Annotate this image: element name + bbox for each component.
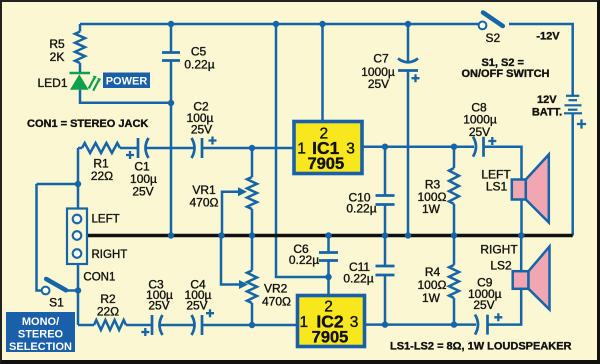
capacitor C3: [152, 315, 163, 335]
wire IC2 output to C9: [365, 323, 477, 326]
wire input to R1: [78, 147, 82, 150]
svg-text:STEREO: STEREO: [18, 329, 64, 341]
C7 plus: [412, 74, 420, 82]
node ground / C6: [325, 232, 331, 238]
node IC1 out / R3: [451, 144, 457, 150]
wire R3 top: [453, 147, 456, 168]
C8 plus: [488, 137, 496, 145]
wire LS1 to ground: [520, 200, 523, 236]
VR1 wiper: [222, 187, 247, 235]
svg-text:7905: 7905: [307, 155, 344, 173]
connector CON1 (stereo jack): [67, 209, 87, 265]
svg-text:BATT.: BATT.: [532, 106, 562, 118]
wire C9 to LS2: [488, 289, 522, 325]
svg-text:25V: 25V: [148, 299, 169, 313]
wire -12V feed to IC1 pin2: [321, 24, 324, 122]
wire C11 bottom: [384, 275, 387, 325]
svg-text:22Ω: 22Ω: [97, 305, 119, 319]
wire S1 left drop: [37, 184, 42, 291]
svg-text:0.22µ: 0.22µ: [184, 58, 214, 72]
svg-text:1: 1: [299, 314, 308, 331]
C9 plus: [494, 313, 502, 321]
svg-text:1: 1: [297, 141, 306, 158]
node IC2 out / R4: [451, 321, 457, 327]
node C6 / IC2 pin2: [325, 274, 331, 280]
battery B1 12V: [564, 96, 582, 114]
battery plus: [577, 119, 586, 128]
svg-text:25V: 25V: [132, 185, 153, 199]
loudspeaker LS1: [512, 155, 549, 223]
wire top -12V rail left: [80, 23, 478, 26]
potentiometer VR2: [247, 271, 257, 304]
svg-text:1W: 1W: [422, 291, 441, 305]
svg-text:MONO/: MONO/: [22, 316, 59, 328]
svg-text:ON/OFF SWITCH: ON/OFF SWITCH: [462, 68, 550, 80]
node input / VR1 top: [249, 145, 255, 151]
wire VR1 bottom to VR2 top: [251, 209, 254, 271]
switch S1: [42, 279, 66, 294]
capacitor C11: [376, 266, 395, 275]
MONO/STEREO SELECTION label box: [6, 312, 75, 353]
C3 plus: [141, 328, 149, 336]
svg-text:POWER: POWER: [106, 75, 148, 87]
svg-text:RIGHT: RIGHT: [480, 243, 518, 257]
node top rail / IC2 feed: [273, 21, 279, 27]
capacitor C1: [138, 138, 149, 158]
svg-text:S2: S2: [485, 31, 500, 45]
LED1: [70, 73, 102, 91]
svg-text:25V: 25V: [368, 77, 389, 91]
wire R3 bottom: [453, 204, 456, 236]
wire C6 bottom to IC2 pin2: [327, 261, 330, 296]
wire S1 link to left channel: [37, 183, 79, 186]
C4 plus: [206, 309, 214, 317]
wire S1 to node: [66, 289, 78, 292]
svg-text:RIGHT: RIGHT: [92, 249, 128, 261]
svg-text:470Ω: 470Ω: [262, 295, 291, 309]
svg-text:C5: C5: [191, 45, 207, 59]
wire to R2: [78, 324, 94, 327]
wire battery to ground-rail end: [571, 113, 574, 236]
wire C1 to C2: [146, 147, 194, 150]
C2 plus: [209, 137, 217, 145]
wire C3 to C4: [160, 324, 194, 327]
svg-text:S1: S1: [49, 296, 64, 310]
POWER label box: [103, 73, 150, 89]
node LED1-C5: [168, 100, 174, 106]
node bottom input / VR2: [249, 322, 255, 328]
node S1-CON1-R2: [75, 287, 81, 293]
svg-text:25V: 25V: [191, 123, 212, 137]
wire top -12V rail right to battery: [509, 24, 573, 96]
wire VR1 top: [251, 148, 254, 177]
loudspeaker LS2: [513, 247, 550, 310]
wire CON1 bottom to R2 line: [77, 264, 80, 325]
wire C5 top: [170, 24, 173, 53]
svg-text:22Ω: 22Ω: [91, 169, 113, 183]
svg-text:25V: 25V: [469, 125, 490, 139]
node ground / wipers: [218, 232, 224, 238]
wire C10 bottom to C11 top: [384, 205, 387, 267]
node ground / C5: [168, 232, 174, 238]
wire -12V feed to IC2 pin2: [276, 24, 329, 277]
node IC2 out / C11: [382, 321, 388, 327]
wire VR2 bottom: [251, 303, 254, 325]
node top rail / C5: [168, 21, 174, 27]
node ground / C7: [405, 232, 411, 238]
svg-text:C7: C7: [373, 52, 389, 66]
svg-text:0.22µ: 0.22µ: [346, 202, 376, 216]
capacitor C9: [475, 315, 488, 335]
svg-text:25V: 25V: [473, 298, 494, 312]
svg-text:3: 3: [350, 314, 359, 331]
svg-text:R4: R4: [425, 265, 441, 279]
capacitor C2: [192, 138, 203, 158]
wire C10 top: [384, 147, 387, 196]
node ground / VR1-VR2: [249, 232, 255, 238]
wire R2 to C3: [126, 324, 152, 327]
wire C8 to LS1: [484, 147, 522, 180]
svg-text:SELECTION: SELECTION: [9, 341, 72, 353]
wire C7 top: [407, 24, 410, 62]
wire C4 to IC2 pin1: [202, 324, 298, 327]
capacitor C4: [192, 315, 203, 335]
svg-text:1W: 1W: [422, 202, 441, 216]
resistor R4: [449, 265, 459, 298]
node ground / LS1-LS2: [518, 232, 524, 238]
svg-text:0.22µ: 0.22µ: [343, 272, 373, 286]
resistor R2: [94, 320, 126, 330]
svg-text:3: 3: [346, 141, 355, 158]
wire IC1 output to C8: [362, 145, 474, 148]
resistor R1: [82, 143, 120, 153]
resistor R5: [75, 32, 85, 64]
wire C2 to IC1 pin1: [202, 147, 294, 150]
node IC1 out / C10: [382, 144, 388, 150]
svg-text:LS2: LS2: [490, 259, 512, 273]
resistor R3: [449, 168, 459, 204]
svg-text:R5: R5: [49, 37, 65, 51]
wire C7 bottom to ground: [407, 71, 410, 236]
node ground / C10-C11: [382, 232, 388, 238]
potentiometer VR1: [247, 177, 257, 209]
svg-text:CON1: CON1: [83, 272, 115, 284]
svg-text:25V: 25V: [186, 299, 207, 313]
node top rail / IC1 feed: [319, 21, 325, 27]
wire C6 top: [327, 236, 330, 253]
svg-text:470Ω: 470Ω: [190, 196, 219, 210]
capacitor C8: [473, 137, 484, 157]
wire R4 bottom: [453, 298, 456, 325]
capacitor C10: [376, 196, 395, 205]
wire LS2 to ground: [520, 236, 523, 272]
wire R1 to C1: [120, 147, 138, 150]
capacitor C5: [162, 53, 180, 61]
VR2 wiper: [221, 236, 248, 290]
wire left input corner to CON1: [77, 148, 80, 209]
op-amp U1 regulator IC1 7905: [294, 122, 362, 174]
ground rail (0V line): [87, 234, 573, 238]
wire R5 top stub: [79, 24, 82, 32]
op-amp U2 regulator IC2 7905: [298, 296, 365, 347]
svg-text:LS1-LS2 = 8Ω, 1W LOUDSPEAKER: LS1-LS2 = 8Ω, 1W LOUDSPEAKER: [390, 341, 572, 353]
wire R5 to LED1: [79, 63, 82, 72]
svg-text:-12V: -12V: [536, 31, 560, 43]
svg-text:0.22µ: 0.22µ: [289, 253, 319, 267]
node top rail / C7: [405, 21, 411, 27]
wire LED1 to node: [80, 90, 171, 103]
wire C5 bottom to ground: [170, 61, 173, 236]
capacitor C6: [319, 253, 338, 261]
svg-text:VR2: VR2: [264, 282, 288, 296]
node ground / R3-R4: [451, 232, 457, 238]
svg-text:7905: 7905: [312, 329, 349, 347]
svg-text:2K: 2K: [50, 50, 65, 64]
svg-text:LED1: LED1: [37, 76, 67, 90]
svg-text:LS1: LS1: [486, 180, 508, 194]
capacitor C7: [398, 59, 418, 71]
svg-text:LEFT: LEFT: [92, 214, 120, 226]
svg-text:12V: 12V: [537, 94, 557, 106]
wire R4 top: [453, 236, 456, 265]
svg-text:100Ω: 100Ω: [418, 278, 447, 292]
node input left / S1: [75, 181, 81, 187]
C1 plus: [126, 151, 134, 159]
svg-text:CON1 = STEREO JACK: CON1 = STEREO JACK: [27, 118, 148, 130]
switch S2: [479, 13, 503, 30]
